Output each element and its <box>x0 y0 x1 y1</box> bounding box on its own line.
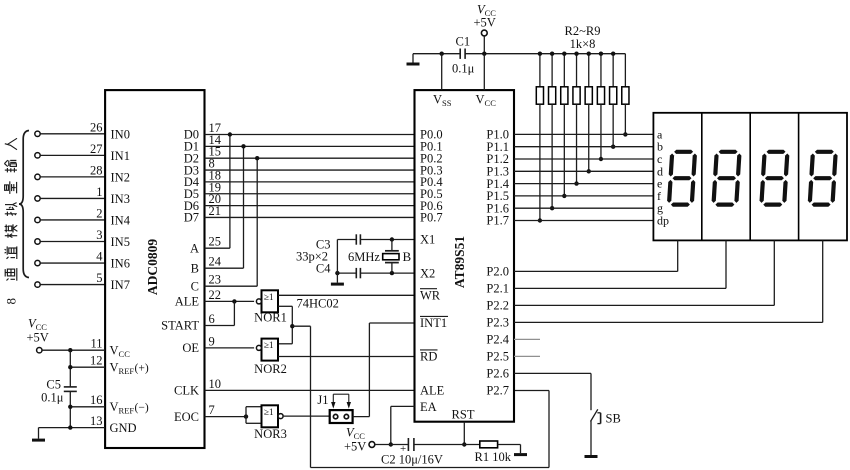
resistor R3 1k column to segment g <box>549 52 556 211</box>
display pin label a <box>657 127 663 141</box>
stub P2.5 (n.c.) <box>514 355 540 357</box>
pin label GND <box>110 421 137 435</box>
svg-text:7: 7 <box>209 403 215 417</box>
svg-text:P2.1: P2.1 <box>486 282 509 296</box>
label C3 33px2 C4 <box>296 238 331 276</box>
wire RST pin drop <box>462 422 466 447</box>
display pin label e <box>657 177 662 191</box>
pin label IN3 <box>111 192 130 206</box>
IC U-MCU chip body AT89S51 <box>415 90 515 422</box>
svg-text:+5V: +5V <box>344 440 366 454</box>
pin label EA <box>420 400 437 414</box>
IC U-ADC chip body ADC0809 <box>105 90 204 448</box>
pin label IN2 <box>111 170 130 184</box>
svg-text:11: 11 <box>90 337 102 351</box>
svg-text:RST: RST <box>452 407 475 421</box>
label R2~R9 1kx8 <box>565 24 601 51</box>
pin label IN4 <box>111 214 131 228</box>
wire Vcc vertical chain <box>69 350 71 427</box>
wire segment net f (P1.5 to display) <box>514 195 653 197</box>
svg-text:OE: OE <box>182 341 199 355</box>
svg-text:IN0: IN0 <box>111 127 130 141</box>
svg-text:≥1: ≥1 <box>264 293 274 303</box>
svg-text:2: 2 <box>96 206 102 220</box>
wire data bus D5 to P0.5 <box>205 193 415 195</box>
label 6MHz <box>348 250 380 264</box>
pin B (pin 24) wire up to D1 line with junction <box>191 144 246 275</box>
4-digit 7-segment display body <box>653 113 847 241</box>
svg-text:START: START <box>161 319 199 333</box>
pin label P1.6 <box>486 201 509 215</box>
wire NOR2 lower input to RDbar <box>278 356 415 358</box>
pin A (pin 25) wire up to D0 line with junction <box>190 132 232 255</box>
supply label Vcc +5V (left) <box>27 317 49 345</box>
svg-text:EOC: EOC <box>174 410 199 424</box>
svg-text:0.1μ: 0.1μ <box>41 391 64 405</box>
wire SB to ground <box>590 421 592 455</box>
Vcc pin 11 of ADC with +5V terminal <box>37 337 106 353</box>
wire Vcc terminal drop <box>483 36 485 54</box>
resistor R6 1k column to segment d <box>585 52 592 174</box>
svg-text:(−): (−) <box>135 402 149 414</box>
pin C (pin 23) wire up to D2 line with junction <box>191 156 260 293</box>
crystal B 6MHz <box>383 240 412 274</box>
svg-text:21: 21 <box>209 204 222 218</box>
wire Vss pin drop <box>441 54 443 90</box>
svg-text:RD: RD <box>420 350 437 364</box>
pin label Vss <box>433 93 452 109</box>
svg-text:28: 28 <box>90 163 103 177</box>
svg-text:C4: C4 <box>316 261 331 275</box>
svg-text:P2.7: P2.7 <box>486 384 509 398</box>
svg-text:IN4: IN4 <box>111 214 131 228</box>
analog input terminal IN5 (pin 3) with wire <box>35 228 105 244</box>
svg-text:24: 24 <box>209 255 222 269</box>
svg-text:B: B <box>191 261 199 275</box>
resistor R9 1k column to segment a <box>622 54 629 137</box>
analog input terminal IN2 (pin 28) with wire <box>35 163 105 179</box>
ground (R1) <box>514 445 527 457</box>
label 74HC02 <box>297 297 339 311</box>
svg-text:≥1: ≥1 <box>264 408 274 418</box>
svg-text:(+): (+) <box>135 363 149 375</box>
pin label D6 with number 20 <box>184 192 221 213</box>
pin CLK (10) wired to AT89S51 ALE <box>174 377 415 398</box>
svg-text:IN6: IN6 <box>111 257 130 271</box>
wire display digit 3 common to P2.2 <box>514 240 774 305</box>
pin label INT1bar <box>420 316 448 330</box>
pin label D1 with number 14 <box>184 133 222 154</box>
wire segment net c (P1.2 to display) <box>514 158 653 160</box>
svg-text:P1.7: P1.7 <box>486 214 509 228</box>
svg-text:dp: dp <box>657 214 669 228</box>
display pin label g <box>657 201 663 215</box>
pin label P1.1 <box>486 140 509 154</box>
wire EA to bottom rail <box>389 406 415 446</box>
svg-text:NOR2: NOR2 <box>254 362 287 376</box>
svg-text:ALE: ALE <box>175 295 200 309</box>
svg-text:25: 25 <box>209 235 222 249</box>
pin label Vref(-) <box>110 400 149 416</box>
stub P2.4 (n.c.) <box>514 338 540 340</box>
svg-text:13: 13 <box>90 414 103 428</box>
svg-text:IN3: IN3 <box>111 192 130 206</box>
resistor R4 1k column to segment f <box>561 52 568 199</box>
pin label P1.0 <box>486 128 509 142</box>
pin label IN7 <box>111 278 130 292</box>
svg-text:IN5: IN5 <box>111 235 130 249</box>
wire display digit 1 common to P2.0 <box>514 240 678 271</box>
pin label P2.7 <box>486 384 509 398</box>
wire X1 net <box>337 237 414 241</box>
pin label P1.7 <box>486 214 509 228</box>
svg-text:0.1μ: 0.1μ <box>452 62 475 76</box>
pin label X2 <box>420 266 435 280</box>
wire data bus D6 to P0.6 <box>205 205 415 207</box>
display pin label d <box>657 164 663 178</box>
svg-text:5: 5 <box>96 271 102 285</box>
pin label P0.4 <box>420 175 443 189</box>
svg-text:P2.4: P2.4 <box>486 333 509 347</box>
svg-text:26: 26 <box>90 120 103 134</box>
svg-text:8: 8 <box>4 298 19 305</box>
svg-text:74HC02: 74HC02 <box>297 297 339 311</box>
wire display digit 2 common to P2.1 <box>514 240 726 288</box>
supply terminal Vcc +5V (top) <box>474 3 497 36</box>
wire segment net d (P1.3 to display) <box>514 170 653 172</box>
svg-text:P2.2: P2.2 <box>486 299 509 313</box>
svg-text:6: 6 <box>209 312 215 326</box>
svg-text:X1: X1 <box>420 233 435 247</box>
svg-text:WR: WR <box>420 289 441 303</box>
svg-text:4: 4 <box>96 250 103 264</box>
svg-text:+5V: +5V <box>474 16 496 30</box>
resistor R7 1k column to segment c <box>597 52 604 162</box>
wire NOR1 input to WRbar <box>278 294 415 296</box>
pin label P2.6 <box>486 367 509 381</box>
ground (ADC left) <box>32 428 45 442</box>
pin label D4 with number 18 <box>184 168 221 189</box>
svg-text:+5V: +5V <box>27 331 49 345</box>
svg-text:SB: SB <box>606 411 621 425</box>
pin EOC (7) wired to NOR3 tied inputs <box>174 403 262 424</box>
pin label P1.5 <box>486 189 509 203</box>
jumper J1 insertion arrows <box>317 393 351 408</box>
pin label P2.4 <box>486 333 509 347</box>
capacitor C2 10u/16V polarized <box>381 438 443 467</box>
pin label IN5 <box>111 235 130 249</box>
pin label P0.3 <box>420 163 443 177</box>
jumper J1 block with two pins <box>330 410 353 423</box>
wire data bus D1 to P0.1 <box>205 145 415 147</box>
capacitor C3 <box>356 234 360 244</box>
chip name AT89S51 (rotated) <box>452 236 467 289</box>
vertical caption: 8-channel analog input (8 Chinese chars rotated) <box>4 138 19 304</box>
wire NOR1 lower input tied to NOR2 upper input with junction node <box>278 306 294 344</box>
resistor R5 1k column to segment e <box>573 52 580 186</box>
pin label IN1 <box>111 149 130 163</box>
pin label RDbar <box>420 350 438 364</box>
pin label P0.5 <box>420 187 443 201</box>
svg-text:IN2: IN2 <box>111 170 130 184</box>
svg-text:6MHz: 6MHz <box>348 250 380 264</box>
brace for 8-channel analog input group <box>19 131 29 278</box>
pin Vref(-) 16 wire <box>68 393 105 409</box>
pin label P0.1 <box>420 140 443 154</box>
svg-text:16: 16 <box>90 393 103 407</box>
svg-text:IN7: IN7 <box>111 278 130 292</box>
svg-text:INT1: INT1 <box>420 316 447 330</box>
capacitor C4 <box>356 268 360 278</box>
svg-text:AT89S51: AT89S51 <box>452 236 467 289</box>
svg-text:NOR1: NOR1 <box>254 311 287 325</box>
wire segment net dp (P1.7 to display) <box>514 220 653 222</box>
analog input terminal IN1 (pin 27) with wire <box>35 142 105 158</box>
capacitor C1 0.1u <box>452 35 475 76</box>
NOR gate NOR2 (74HC02) <box>254 339 287 376</box>
wire data bus D2 to P0.2 <box>205 157 415 159</box>
pin START (6) wire joining ALE node <box>161 301 234 332</box>
wire segment net g (P1.6 to display) <box>514 207 653 209</box>
pin label ALE (MCU) <box>420 384 445 398</box>
pin label P2.3 <box>486 316 509 330</box>
display pin label dp <box>657 214 669 228</box>
analog input terminal IN4 (pin 2) with wire <box>35 206 105 222</box>
svg-text:≥1: ≥1 <box>264 341 274 351</box>
pin label P2.5 <box>486 350 509 364</box>
wire data bus D4 to P0.4 <box>205 181 415 183</box>
pin label Vcc (MCU) <box>476 93 497 109</box>
svg-text:B: B <box>403 249 412 264</box>
NOR gate NOR1 (74HC02) <box>254 290 287 324</box>
pin label P0.7 <box>420 211 443 225</box>
svg-text:A: A <box>190 241 199 255</box>
svg-text:27: 27 <box>90 142 103 156</box>
ground (top left) <box>407 54 420 66</box>
ground (crystal) <box>331 273 344 286</box>
svg-text:C5: C5 <box>46 378 61 392</box>
wire J1 to INT1bar <box>353 323 415 417</box>
wire NOR3 output to J1 <box>284 415 330 417</box>
wire X2 net <box>335 271 414 275</box>
pin label X1 <box>420 233 435 247</box>
pin label P0.0 <box>420 128 443 142</box>
wire top rail <box>413 52 625 56</box>
wire Vcc pin drop <box>483 54 485 90</box>
pin label IN6 <box>111 257 130 271</box>
svg-text:23: 23 <box>209 273 222 287</box>
svg-text:R1 10k: R1 10k <box>475 450 512 464</box>
7-segment digit 3 <box>759 150 789 207</box>
svg-text:1: 1 <box>96 185 102 199</box>
pin label P1.3 <box>486 165 509 179</box>
pin label IN0 <box>111 127 130 141</box>
svg-text:C: C <box>191 279 199 293</box>
pin label Vref(+) <box>110 361 149 377</box>
svg-text:12: 12 <box>90 354 103 368</box>
wire display digit 4 common to P2.3 <box>514 240 823 322</box>
pin label P2.1 <box>486 282 509 296</box>
display pin label c <box>657 152 662 166</box>
svg-text:X2: X2 <box>420 266 435 280</box>
wire data bus D0 to P0.0 <box>205 134 415 136</box>
svg-text:C2 10μ/16V: C2 10μ/16V <box>381 453 443 467</box>
pin label P2.2 <box>486 299 509 313</box>
pin label D7 with number 21 <box>184 204 221 225</box>
wire segment net b (P1.1 to display) <box>514 146 653 148</box>
wire P2.6 to switch SB <box>514 373 591 410</box>
svg-text:1k×8: 1k×8 <box>570 37 596 51</box>
svg-text:J1: J1 <box>317 393 328 407</box>
7-segment digit 1 <box>667 150 697 207</box>
svg-text:NOR3: NOR3 <box>254 427 287 441</box>
wire NOR junction routed to P2.7 <box>292 326 549 467</box>
7-segment digit 4 <box>807 150 837 207</box>
pin label Vcc <box>110 344 131 360</box>
wire data bus D3 to P0.3 <box>205 169 415 171</box>
display pin label b <box>657 140 663 154</box>
capacitor C5 0.1u <box>41 378 77 405</box>
pin label P0.2 <box>420 151 443 165</box>
NOR gate NOR3 (74HC02) <box>254 405 287 441</box>
svg-text:EA: EA <box>420 400 437 414</box>
pin GND 13 wire <box>39 414 106 430</box>
resistor R1 10k <box>475 441 521 464</box>
pin label RST <box>452 407 475 421</box>
wire bottom rail <box>375 444 480 446</box>
analog input terminal IN3 (pin 1) with wire <box>35 185 105 201</box>
wire data bus D7 to P0.7 <box>205 216 415 218</box>
analog input terminal IN7 (pin 5) with wire <box>35 271 105 287</box>
svg-text:P2.6: P2.6 <box>486 367 509 381</box>
svg-text:IN1: IN1 <box>111 149 130 163</box>
svg-text:9: 9 <box>209 334 215 348</box>
analog input terminal IN0 (pin 26) with wire <box>35 120 105 136</box>
svg-text:C1: C1 <box>456 35 471 49</box>
wire C3/C4 common leg <box>336 240 338 274</box>
svg-text:ALE: ALE <box>420 384 445 398</box>
pin label D3 with number 8 <box>184 157 215 178</box>
pin OE (9) wired to NOR2 output <box>182 334 254 355</box>
pin label D5 with number 19 <box>184 180 221 201</box>
svg-text:22: 22 <box>209 288 222 302</box>
svg-text:P2.5: P2.5 <box>486 350 509 364</box>
pin label P2.0 <box>486 265 509 279</box>
svg-text:ADC0809: ADC0809 <box>145 239 160 295</box>
svg-text:GND: GND <box>110 421 137 435</box>
pin label D2 with number 15 <box>184 145 221 166</box>
supply terminal Vcc +5V (bottom) <box>344 426 375 454</box>
wire segment net e (P1.4 to display) <box>514 183 653 185</box>
svg-text:P2.0: P2.0 <box>486 265 509 279</box>
svg-text:D7: D7 <box>184 211 199 225</box>
pin ALE (22) of ADC wired to NOR1 output <box>175 288 254 309</box>
svg-text:CLK: CLK <box>174 384 199 398</box>
pin label D0 with number 17 <box>184 121 221 142</box>
svg-text:R2~R9: R2~R9 <box>565 24 601 38</box>
pin label P1.2 <box>486 152 509 166</box>
analog input terminal IN6 (pin 4) with wire <box>35 250 105 266</box>
wire segment net a (P1.0 to display) <box>514 133 653 135</box>
7-segment digit 2 <box>711 150 741 207</box>
pin label P0.6 <box>420 199 443 213</box>
svg-text:P0.7: P0.7 <box>420 211 443 225</box>
resistor R2 1k column to segment dp <box>536 52 543 223</box>
svg-text:3: 3 <box>96 228 102 242</box>
pin Vref(+) 12 wire <box>68 354 105 370</box>
resistor R8 1k column to segment b <box>610 52 617 149</box>
svg-text:P2.3: P2.3 <box>486 316 509 330</box>
pin label P1.4 <box>486 177 509 191</box>
ground (SB) <box>585 455 598 458</box>
chip name ADC0809 (rotated) <box>145 239 160 295</box>
pin label WRbar <box>420 289 441 303</box>
svg-text:10: 10 <box>209 377 222 391</box>
pushbutton SB <box>591 409 621 425</box>
display pin label f <box>657 189 661 203</box>
